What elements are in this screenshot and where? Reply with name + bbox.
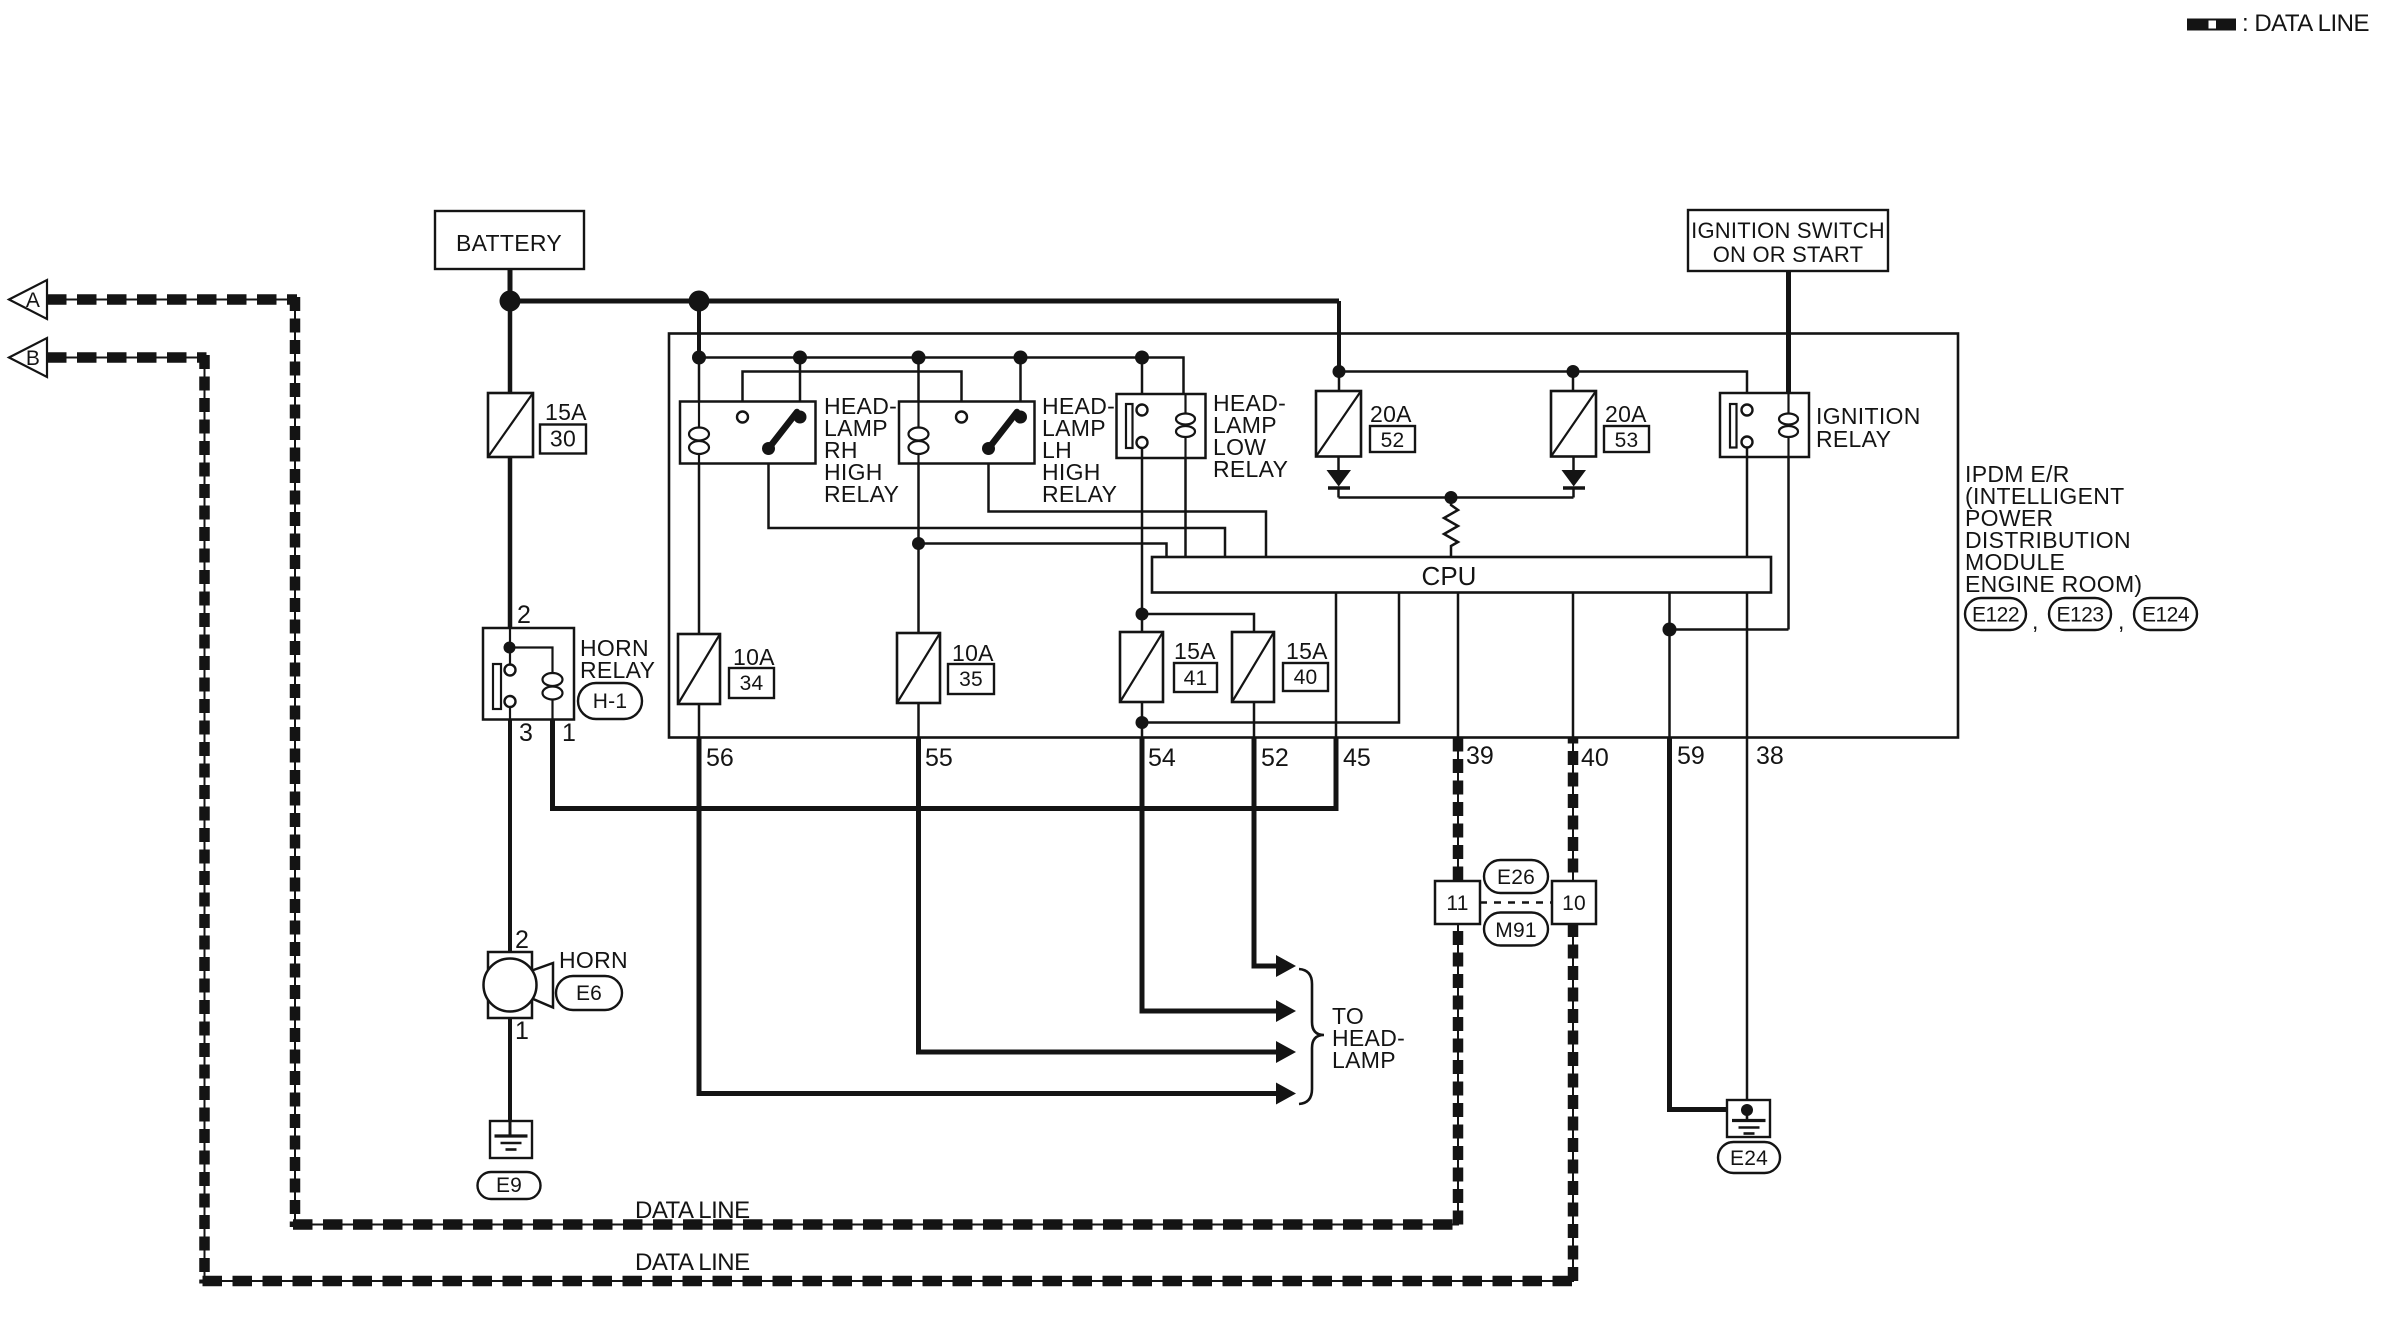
wire to fuse 52 (1338, 372, 1341, 392)
junction inner bus at LH switch (1014, 351, 1028, 365)
junction fuse 41 output (1136, 716, 1149, 729)
connector label H-1 (578, 683, 642, 719)
svg-text:E9: E9 (496, 1174, 522, 1197)
arrowhead 2 (1276, 1000, 1296, 1022)
svg-text:15A: 15A (1174, 638, 1216, 664)
junction inner bus at RH switch (793, 351, 807, 365)
connector pin 11 (E26) (1435, 881, 1480, 924)
fuse 41 (15A) (1120, 632, 1163, 702)
svg-text:53: 53 (1615, 429, 1639, 452)
wire inner supply bus (699, 358, 1184, 395)
reference label 34 (729, 668, 774, 698)
svg-text:10A: 10A (733, 644, 775, 670)
svg-text:ON OR START: ON OR START (1713, 242, 1864, 267)
ground E9 (490, 1121, 532, 1158)
svg-text:40: 40 (1294, 666, 1318, 689)
wire low relay contact output (1141, 448, 1144, 632)
wire LH coil branch to CPU (919, 544, 1167, 558)
brace to headlamp (1299, 969, 1324, 1104)
svg-text:H-1: H-1 (593, 690, 627, 713)
svg-text:1: 1 (562, 719, 576, 747)
label relay headlamp RH high (824, 393, 899, 507)
diode 52 (1327, 457, 1352, 498)
svg-text:45: 45 (1343, 744, 1371, 772)
svg-text:56: 56 (706, 744, 734, 772)
connector label E6 (556, 976, 622, 1010)
svg-text:40: 40 (1581, 744, 1609, 772)
svg-text:10A: 10A (952, 640, 994, 666)
wire pin 55 to headlamp arrow 3 (919, 738, 1278, 1053)
resistor to CPU (1444, 498, 1458, 558)
svg-text:DATA LINE: DATA LINE (635, 1197, 750, 1224)
svg-text:55: 55 (925, 744, 953, 772)
svg-text:RELAY: RELAY (824, 481, 899, 507)
label IPDM E/R block (1965, 461, 2142, 597)
reference label 41 (1174, 663, 1217, 692)
junction diodes to resistor (1445, 491, 1458, 504)
reference label 52 (1370, 426, 1415, 452)
wire low relay coil to CPU (1184, 458, 1187, 557)
wire fuse 40 output to pin 52 (1253, 702, 1256, 738)
svg-text:A: A (26, 289, 40, 312)
svg-text:20A: 20A (1605, 401, 1647, 427)
fuse 52 (20A) (1316, 391, 1361, 457)
wire bus to RH switch contact (799, 358, 802, 415)
IPDM E/R enclosure box (669, 334, 1958, 738)
connector label E123 (2049, 598, 2111, 630)
svg-text:3: 3 (519, 719, 533, 747)
label relay ignition (1816, 403, 1921, 452)
arrowhead 1 (1276, 955, 1296, 977)
junction bus at IPDM feed (689, 291, 710, 312)
wire LH switch output to CPU (989, 464, 1267, 558)
svg-text:E24: E24 (1730, 1147, 1768, 1170)
relay ignition (1720, 393, 1809, 457)
wire ignition relay coil return (1787, 457, 1790, 630)
wire pin 59 to ground E24 (1670, 738, 1742, 1110)
wire branch to fuse 40 (1142, 614, 1254, 632)
wire CPU to fuse41 output junction (1142, 593, 1399, 723)
svg-text:DATA LINE: DATA LINE (635, 1249, 750, 1276)
label horn relay (580, 635, 655, 683)
junction inner bus at headlamp LH coil (912, 351, 926, 365)
wire pin 54 to headlamp arrow 2 (1142, 738, 1277, 1012)
wire connector mating dotted link (1480, 901, 1552, 904)
svg-text:52: 52 (1381, 429, 1405, 452)
svg-text:HORN: HORN (559, 947, 628, 973)
wire battery feed to fuses 52/53 and ignition relay contact (1339, 372, 1747, 405)
svg-text:E6: E6 (576, 982, 602, 1005)
svg-text:E123: E123 (2056, 604, 2103, 627)
wire ignition switch feed (1786, 271, 1791, 395)
legend data-line sample (2187, 19, 2236, 31)
wire diode junction line (1339, 496, 1574, 499)
arrowhead 4 (1276, 1083, 1296, 1105)
wire CPU pin 59 lead (1668, 593, 1671, 738)
svg-text:20A: 20A (1370, 401, 1412, 427)
svg-text:RELAY: RELAY (1042, 481, 1117, 507)
svg-text:34: 34 (740, 672, 764, 695)
wire pin 52 to headlamp arrow 1 (1254, 738, 1277, 967)
svg-text:39: 39 (1466, 742, 1494, 770)
fuse 40 (15A) (1232, 632, 1274, 702)
svg-text:1: 1 (515, 1017, 529, 1045)
svg-text:35: 35 (959, 668, 983, 691)
label relay headlamp LH high (1042, 393, 1117, 507)
CPU box (1152, 557, 1771, 593)
wire battery bus (510, 299, 1339, 304)
junction feed at fuse 52 (1333, 365, 1346, 378)
wire horn relay coil to CPU pin 45 (553, 720, 1337, 809)
wire pin 38 to ground E24 (1746, 738, 1749, 1111)
svg-text:RELAY: RELAY (580, 657, 655, 683)
wire LH coil to fuse 35 (917, 464, 920, 634)
svg-text:15A: 15A (1286, 638, 1328, 664)
wire CPU pin 39 lead (1457, 593, 1460, 738)
relay headlamp low (1117, 394, 1206, 458)
junction pin 59 line at coil branch (1663, 623, 1677, 637)
connector label E24 (1718, 1142, 1780, 1173)
connector label E124 (2134, 598, 2197, 630)
svg-text:11: 11 (1446, 892, 1468, 915)
battery (435, 211, 584, 269)
wire bus to LH relay coil (917, 358, 920, 402)
wire fuse 30 to horn relay (508, 457, 513, 628)
horn E6 (484, 952, 554, 1018)
wire battery to fuse 30 (508, 301, 513, 393)
connector pin 10 (M91) (1552, 881, 1596, 924)
svg-text:M91: M91 (1495, 919, 1536, 942)
reference label 40 (1283, 663, 1328, 691)
junction inner bus at headlamp RH coil (692, 351, 706, 365)
reference label 53 (1604, 426, 1649, 452)
connector label E122 (1965, 598, 2026, 630)
wire CPU to ignition coil branch (1670, 628, 1789, 631)
wire pin 56 to headlamp arrow 4 (699, 738, 1277, 1094)
svg-text:CPU: CPU (1422, 561, 1477, 591)
wire bus drop into IPDM (697, 301, 701, 358)
svg-text:ENGINE ROOM): ENGINE ROOM) (1965, 571, 2142, 597)
fuse 53 (20A) (1551, 391, 1596, 457)
wire fuse 34 output to pin 56 (698, 704, 701, 738)
wire pilot link RH-LH (743, 372, 962, 412)
junction feed at fuse 53 (1567, 365, 1580, 378)
junction bus at fuse 30 (500, 291, 521, 312)
wire CPU pin 40 lead (1572, 593, 1575, 738)
wire fuse 35 output to pin 55 (917, 703, 920, 738)
wire battery lead (508, 269, 513, 301)
svg-text:,: , (2118, 608, 2125, 634)
wire bus to LH switch contact (1019, 358, 1022, 415)
wire to fuse 53 (1572, 372, 1575, 392)
svg-text:54: 54 (1148, 744, 1176, 772)
wire bus to low relay contact (1141, 358, 1144, 405)
svg-text:B: B (26, 347, 40, 370)
relay headlamp RH high (680, 402, 816, 464)
svg-text:2: 2 (515, 926, 529, 954)
svg-text:52: 52 (1261, 744, 1289, 772)
reference label 35 (948, 664, 994, 694)
svg-text:15A: 15A (545, 399, 587, 425)
svg-text:30: 30 (550, 426, 576, 452)
label TO HEADLAMP (1332, 1003, 1405, 1073)
svg-text:,: , (2032, 608, 2039, 634)
junction inner bus at low relay contact (1135, 351, 1149, 365)
relay horn H-1 (483, 628, 574, 720)
svg-text:E124: E124 (2142, 604, 2190, 627)
wire horn to ground E9 (508, 1018, 512, 1136)
ground E24 (1727, 1100, 1770, 1137)
svg-text:E26: E26 (1497, 866, 1535, 889)
fuse 35 (10A) (897, 633, 940, 703)
node A off-page arrow (9, 280, 47, 319)
label relay headlamp low (1213, 390, 1288, 482)
junction low relay output to fuse 40 (1136, 608, 1149, 621)
ignition switch (1688, 210, 1888, 271)
arrowhead 3 (1276, 1041, 1296, 1063)
junction LH coil branch to CPU (912, 537, 925, 550)
svg-text:10: 10 (1562, 892, 1586, 915)
wire bus to RH relay coil (698, 358, 701, 402)
svg-text:2: 2 (517, 601, 531, 629)
fuse 34 (10A) (678, 634, 720, 704)
wire data line B (to pin 40) (47, 355, 1573, 1284)
fuse 30 (15A) (488, 393, 533, 457)
svg-text:59: 59 (1677, 742, 1705, 770)
svg-text:RELAY: RELAY (1213, 456, 1288, 482)
relay headlamp LH high (899, 402, 1035, 464)
connector label E26 (1484, 860, 1548, 893)
diode 53 (1562, 457, 1587, 498)
svg-text:IGNITION SWITCH: IGNITION SWITCH (1691, 218, 1885, 243)
wire bus drop to fuse 52 feed (1337, 301, 1341, 372)
connector label M91 (1484, 913, 1548, 946)
svg-text:BATTERY: BATTERY (456, 230, 562, 256)
svg-text:38: 38 (1756, 742, 1784, 770)
wire fuse 41 output to pin 54 (1141, 702, 1144, 738)
svg-text:: DATA LINE: : DATA LINE (2242, 10, 2369, 37)
wire horn relay to horn (508, 720, 512, 953)
reference label 30 (540, 425, 586, 454)
svg-text:E122: E122 (1972, 604, 2019, 627)
svg-text:LAMP: LAMP (1332, 1047, 1396, 1073)
node B off-page arrow (9, 338, 47, 377)
connector label E9 (478, 1172, 541, 1199)
svg-text:RELAY: RELAY (1816, 426, 1891, 452)
wire RH coil to fuse 34 (698, 464, 701, 635)
wire ignition relay contact feed-through to pin 38 (1746, 448, 1749, 738)
svg-text:41: 41 (1184, 667, 1208, 690)
wire RH switch output to CPU (769, 464, 1226, 558)
wire data line A (to pin 39) (47, 297, 1458, 1227)
wire CPU pin 45 to horn relay coil (1335, 593, 1338, 738)
